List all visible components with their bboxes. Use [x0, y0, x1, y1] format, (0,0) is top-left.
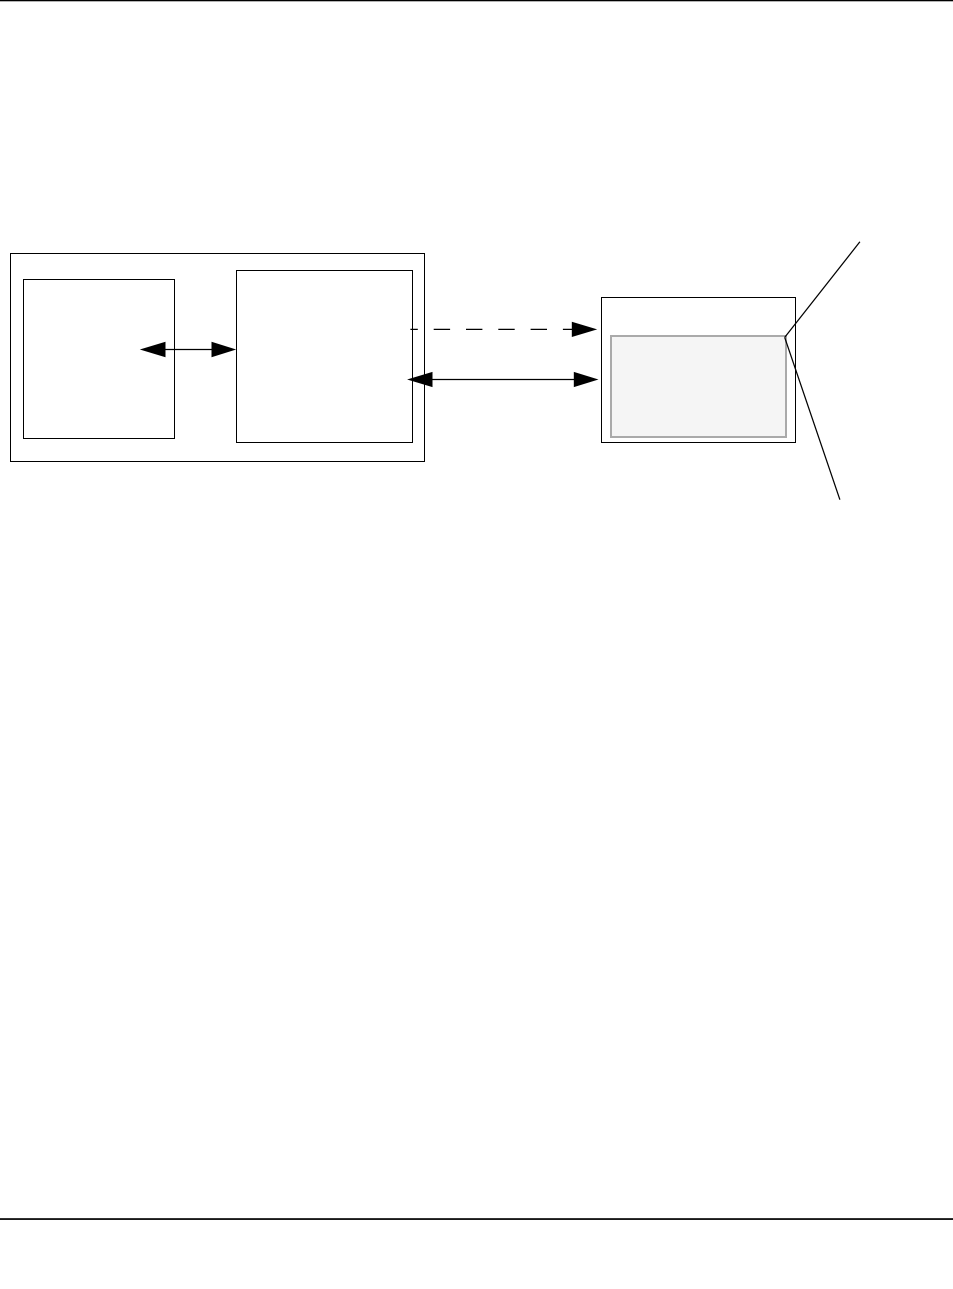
double arrow 1 left head [140, 342, 166, 357]
callout leader line lower [785, 337, 840, 499]
outer box (left group enclosure) [11, 254, 425, 462]
double arrow 2 left head [407, 372, 432, 387]
right inner box [237, 271, 413, 443]
dashed arrow shaft [410, 328, 578, 330]
page header rule [0, 0, 953, 1]
double arrow 2 right head [574, 372, 599, 387]
dashed arrow head [572, 322, 597, 337]
callout leader line upper [785, 242, 860, 338]
left inner box [24, 280, 175, 439]
double arrow 1 shaft [160, 349, 216, 351]
gray inset panel [611, 336, 786, 437]
double arrow 2 shaft [428, 379, 578, 381]
page footer rule [0, 1218, 953, 1220]
right standalone box [602, 298, 796, 443]
double arrow 1 right head [212, 342, 237, 357]
